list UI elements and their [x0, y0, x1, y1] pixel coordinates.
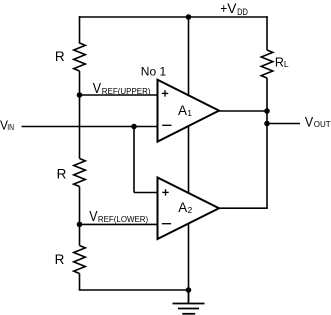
wire A2 output: [219, 207, 268, 209]
wire A1 output: [219, 110, 267, 112]
node A1 output / RL junction: [264, 108, 270, 114]
svg-text:No 1: No 1: [141, 64, 167, 78]
svg-text:VREF(UPPER): VREF(UPPER): [93, 80, 151, 97]
svg-text:RL: RL: [275, 55, 289, 69]
ground: [173, 290, 205, 314]
svg-text:R: R: [57, 166, 67, 181]
resistor RL: [261, 50, 289, 78]
node VIN junction: [131, 124, 137, 130]
wire left rail bottom lead: [79, 274, 81, 291]
wire stub to A2 + input: [134, 192, 158, 194]
node VREF(LOWER) junction: [77, 222, 83, 228]
node VREF(UPPER) junction: [77, 92, 83, 98]
wire VREF(LOWER) to A2 - input: [80, 223, 158, 225]
svg-text:R: R: [55, 252, 65, 267]
node VOUT junction: [264, 121, 270, 127]
node VDD junction on top rail: [186, 14, 192, 20]
wire VREF(UPPER) to A1 + input: [80, 94, 158, 96]
wire VIN vertical drop: [133, 127, 135, 193]
wire right rail RL to A2 output: [266, 78, 268, 208]
resistor R2: [57, 159, 86, 187]
svg-text:VREF(LOWER): VREF(LOWER): [89, 208, 148, 225]
wire bottom rail: [79, 289, 189, 291]
svg-text:VIN: VIN: [0, 118, 14, 133]
op-amp A2: [158, 178, 220, 240]
svg-text:R: R: [55, 49, 65, 64]
wire top rail: [79, 16, 268, 18]
resistor R1: [55, 43, 85, 71]
svg-text:VOUT: VOUT: [305, 113, 331, 129]
resistor R3: [55, 246, 86, 274]
node ground junction: [186, 287, 192, 293]
op-amp A1: [158, 80, 220, 142]
wire VOUT tap: [267, 123, 300, 125]
svg-text:+VDD: +VDD: [220, 0, 248, 17]
wire left rail between R2 and R3: [79, 187, 81, 246]
wire center vertical rail VDD-to-ground: [188, 17, 190, 290]
wire right rail upper lead: [266, 16, 268, 50]
wire VIN horizontal to A1 - input: [22, 126, 158, 128]
wire left rail between R1 and R2: [79, 71, 81, 159]
wire left rail upper lead: [79, 16, 81, 43]
